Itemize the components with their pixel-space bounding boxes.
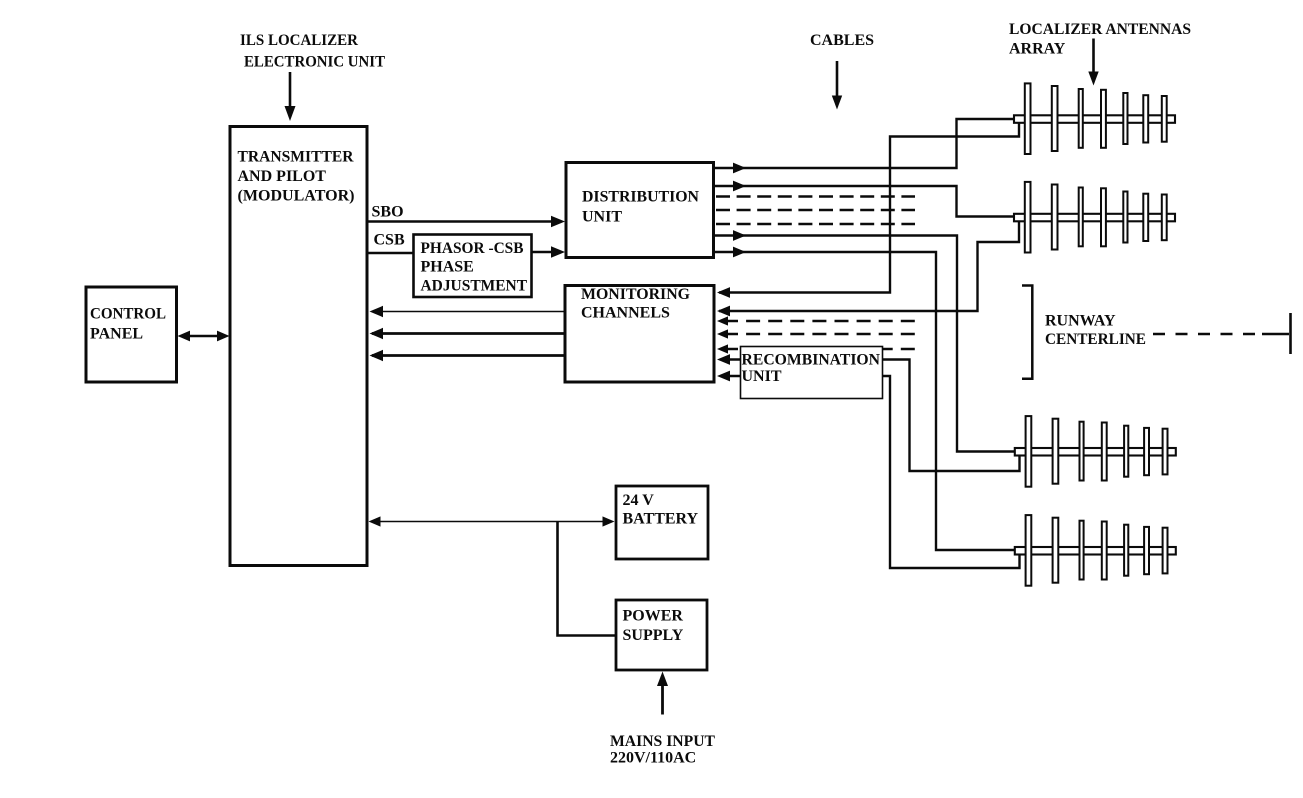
wire: phasor box to distribution unit bbox=[533, 246, 566, 258]
svg-text:RUNWAY: RUNWAY bbox=[1045, 313, 1116, 330]
wire: antenna array 1 pickup to monitoring channels bbox=[717, 123, 1019, 298]
svg-text:MAINS INPUT: MAINS INPUT bbox=[610, 733, 715, 750]
wire: distribution output 1 to antenna array 1 top feed bbox=[715, 119, 1015, 173]
box: 24V battery bbox=[616, 486, 708, 559]
wire: monitoring dashed input 3 bbox=[717, 344, 915, 353]
box: control panel bbox=[86, 287, 177, 382]
wire: distribution dashed cable 2 bbox=[716, 209, 915, 212]
runway centerline dashed line bbox=[1153, 333, 1264, 336]
svg-text:TRANSMITTER: TRANSMITTER bbox=[238, 149, 354, 166]
antenna array 2 bbox=[1014, 182, 1175, 253]
arrow: localizer antennas label arrow down bbox=[1088, 39, 1098, 86]
svg-text:SUPPLY: SUPPLY bbox=[623, 627, 684, 644]
wire: recombination unit to monitoring channels (lower) bbox=[717, 371, 740, 382]
wire: control panel to transmitter double arrow bbox=[178, 331, 230, 342]
box: power supply bbox=[616, 600, 707, 670]
wire: monitoring channels to transmitter (middle) bbox=[370, 328, 565, 339]
svg-text:CONTROL: CONTROL bbox=[90, 306, 166, 323]
arrow: mains input arrow up to power supply bbox=[657, 672, 668, 715]
box: transmitter and pilot (modulator) U1 bbox=[230, 127, 367, 566]
svg-text:BATTERY: BATTERY bbox=[623, 511, 699, 528]
svg-text:AND PILOT: AND PILOT bbox=[238, 168, 327, 185]
runway bracket bbox=[1022, 286, 1032, 379]
wire: battery line junction down to power supply bbox=[558, 522, 616, 636]
wire: distribution output 2 to antenna array 2 top feed bbox=[715, 181, 1015, 217]
svg-text:ARRAY: ARRAY bbox=[1009, 41, 1066, 58]
svg-text:ADJUSTMENT: ADJUSTMENT bbox=[421, 278, 528, 295]
svg-text:220V/110AC: 220V/110AC bbox=[610, 750, 696, 767]
wire CSB: transmitter to phasor box bbox=[369, 252, 413, 255]
wire: monitoring dashed input 1 bbox=[717, 316, 915, 325]
svg-text:PHASE: PHASE bbox=[421, 259, 474, 276]
antenna array 4 bbox=[1015, 515, 1176, 586]
svg-text:CABLES: CABLES bbox=[810, 32, 874, 49]
svg-text:UNIT: UNIT bbox=[742, 368, 782, 385]
svg-text:CHANNELS: CHANNELS bbox=[581, 305, 670, 322]
svg-text:24 V: 24 V bbox=[623, 492, 655, 509]
wire: antenna array 2 pickup to monitoring channels bbox=[717, 222, 1019, 317]
box: distribution unit bbox=[566, 163, 714, 258]
BOXES bbox=[86, 127, 883, 671]
svg-text:DISTRIBUTION: DISTRIBUTION bbox=[582, 189, 699, 206]
wire: monitoring dashed input 2 bbox=[717, 329, 915, 338]
wire SBO: transmitter to distribution unit bbox=[369, 216, 566, 228]
wire: recombination unit to antenna array 4 bottom feed bbox=[883, 376, 1020, 568]
wire: distribution dashed cable 1 bbox=[716, 195, 915, 198]
wire: transmitter to 24V battery double arrow bbox=[369, 516, 615, 526]
arrow: CABLES label arrow down bbox=[832, 61, 842, 110]
box: phasor-CSB phase adjustment bbox=[414, 235, 532, 298]
svg-text:UNIT: UNIT bbox=[582, 209, 622, 226]
svg-text:(MODULATOR): (MODULATOR) bbox=[238, 188, 355, 205]
svg-text:RECOMBINATION: RECOMBINATION bbox=[742, 352, 881, 369]
svg-text:SBO: SBO bbox=[372, 204, 404, 221]
svg-text:PHASOR -CSB: PHASOR -CSB bbox=[421, 240, 524, 257]
runway centerline end bar bbox=[1289, 313, 1292, 354]
svg-text:CSB: CSB bbox=[374, 232, 405, 249]
antenna array 3 bbox=[1015, 416, 1176, 487]
svg-text:CENTERLINE: CENTERLINE bbox=[1045, 331, 1146, 348]
wire: distribution output 3 to antenna array 3 top feed bbox=[715, 230, 1015, 451]
svg-text:POWER: POWER bbox=[623, 608, 684, 625]
wire: monitoring channels to transmitter (thin top) bbox=[370, 306, 565, 317]
box: monitoring channels bbox=[565, 286, 714, 383]
box: recombination unit bbox=[741, 347, 883, 399]
wire: recombination unit to monitoring channels (upper) bbox=[717, 354, 740, 365]
svg-text:MONITORING: MONITORING bbox=[581, 286, 691, 303]
wire: distribution output 4 to antenna array 4 top feed bbox=[715, 247, 1015, 550]
wire: monitoring channels to transmitter (bottom) bbox=[370, 350, 565, 361]
arrow: ILS label arrow down to transmitter bbox=[285, 72, 296, 121]
wire: distribution dashed cable 3 bbox=[716, 223, 915, 226]
antenna array 1 bbox=[1014, 83, 1175, 154]
wire: recombination unit to antenna array 3 bottom feed bbox=[883, 360, 1020, 472]
svg-text:PANEL: PANEL bbox=[90, 326, 143, 343]
svg-text:ELECTRONIC UNIT: ELECTRONIC UNIT bbox=[244, 54, 385, 71]
svg-text:ILS LOCALIZER: ILS LOCALIZER bbox=[240, 32, 358, 49]
svg-text:LOCALIZER ANTENNAS: LOCALIZER ANTENNAS bbox=[1009, 21, 1191, 38]
